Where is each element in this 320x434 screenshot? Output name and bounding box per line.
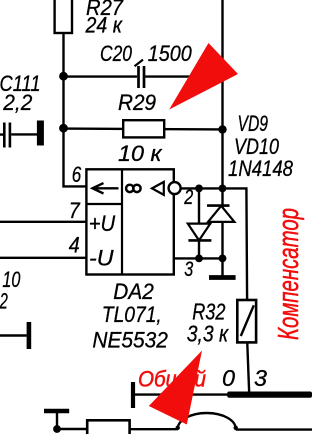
svg-text:2: 2: [183, 186, 193, 209]
svg-text:2,2: 2,2: [2, 90, 32, 115]
diode VD9: [188, 224, 212, 241]
svg-text:4: 4: [69, 233, 80, 258]
wire: C20 row left segment: [64, 75, 138, 77]
op-amp input arrow symbol: [93, 183, 119, 193]
op-amp infinity gain symbol: [126, 185, 140, 192]
wire: pin 4 lead from left edge: [0, 257, 87, 259]
wire: bottom row between resistor and hop: [130, 428, 178, 430]
svg-text:6: 6: [72, 162, 82, 187]
node: bottom-left junction: [53, 425, 61, 433]
red callout arrow bottom: [149, 351, 202, 425]
connector plate bottom-left: [27, 322, 32, 349]
op-amp output inversion circle: [169, 182, 181, 194]
common bus thick bar: [227, 392, 312, 398]
op-amp triangle symbol: [152, 182, 164, 195]
svg-text:0: 0: [222, 365, 235, 391]
svg-text:2: 2: [0, 288, 8, 313]
svg-text:7: 7: [69, 198, 81, 223]
node C: junction R29 row right: [218, 125, 226, 133]
wire: R29 row: [64, 127, 223, 130]
wire: op-amp output row to R32 branch: [181, 188, 249, 393]
svg-text:3,3 к: 3,3 к: [187, 320, 229, 346]
node G: pin3 row right: [219, 255, 227, 263]
svg-text:-U: -U: [89, 245, 114, 270]
wire: VD10 branch vertical with ground stem: [221, 188, 223, 277]
svg-text:1N4148: 1N4148: [228, 156, 294, 181]
svg-text:1500: 1500: [148, 41, 193, 66]
resistor R27: [55, 0, 72, 33]
node B: junction R29 row left: [59, 124, 68, 133]
wire: VD9 branch vertical: [198, 188, 200, 258]
svg-text:+U: +U: [89, 211, 116, 236]
svg-text:Компенсатор: Компенсатор: [273, 208, 305, 340]
wire: chassis terminal stem: [56, 411, 58, 429]
svg-text:TL071,: TL071,: [102, 302, 162, 327]
svg-text:R29: R29: [118, 90, 156, 115]
wire hop (crossover arc): [178, 413, 236, 429]
node: hop right foot: [234, 426, 238, 430]
resistor bottom (body at lower edge): [87, 420, 129, 434]
op-amp DA2: [86, 169, 173, 275]
node F: pin3 row left: [195, 255, 203, 263]
diode VD10: [207, 206, 234, 222]
svg-text:3: 3: [254, 365, 267, 391]
wire: C111 to connector plate: [0, 133, 38, 136]
wire: main left vertical net from R27 down to pin 6: [64, 33, 87, 186]
wire: bottom row right of hop: [236, 428, 312, 430]
common terminal bar: [131, 382, 135, 408]
wire: bottom row left of resistor: [57, 428, 87, 430]
svg-text:10 к: 10 к: [118, 141, 163, 166]
node: hop left foot: [176, 426, 180, 430]
svg-text:DA2: DA2: [113, 279, 154, 304]
chassis terminal bar bottom-left: [44, 409, 69, 414]
node A: junction C20 row: [59, 72, 68, 81]
svg-text:VD9: VD9: [238, 111, 269, 136]
label comma tick after C20: [135, 60, 144, 67]
svg-text:24 к: 24 к: [85, 13, 124, 38]
resistor R29: [123, 120, 164, 137]
svg-text:3: 3: [184, 258, 193, 281]
capacitor C111: [4, 123, 10, 148]
connector plate near C111: [37, 121, 44, 146]
wire: bottom-left lead to connector plate: [0, 334, 27, 336]
wire: pin 7 lead from left edge: [0, 221, 87, 223]
svg-text:NE5532: NE5532: [92, 327, 167, 352]
red callout arrow top: [169, 43, 238, 110]
node D: output row left: [195, 185, 203, 193]
wire: pin 3 row: [175, 257, 223, 259]
wire: common terminal lead to bus: [135, 393, 229, 395]
ground symbol: [209, 275, 236, 280]
node E: output row right: [219, 185, 227, 193]
resistor R32: [237, 300, 256, 342]
capacitor C20: [139, 66, 145, 88]
wire: right vertical net from top edge: [221, 0, 223, 188]
wire: C20 row right segment to right vertical net: [145, 75, 223, 77]
svg-text:C20: C20: [100, 41, 133, 66]
